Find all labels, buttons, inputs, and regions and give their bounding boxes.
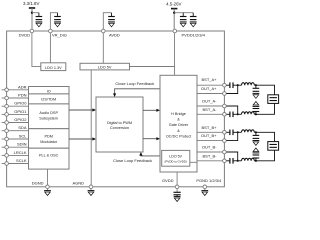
wire LDO 5V down to AGND (90, 70, 92, 185)
wire H-bridge to BST_A+ (197, 84, 224, 86)
wire stack bottom to DGND (47, 169, 49, 185)
block LDO 5V (80, 63, 130, 70)
pin SCLK (2, 163, 7, 165)
wire PVDD down to H-bridge (174, 33, 176, 75)
svg-text:I2S/TDM: I2S/TDM (41, 98, 56, 102)
svg-text:3.3/1.8V: 3.3/1.8V (23, 1, 39, 6)
svg-text:LDO 5V: LDO 5V (169, 155, 182, 159)
svg-text:BST_A+: BST_A+ (201, 77, 217, 82)
inductor B- (242, 158, 255, 161)
wire LDO 5V to PVDD rail (130, 66, 175, 68)
supply terminal 3.3/1.8V (29, 7, 35, 9)
pin SDIN (2, 146, 7, 148)
wire BST_A+ to bootstrap cap (227, 84, 230, 86)
wire VR_DIG into LDO 1.3V top (49, 33, 51, 63)
pin BST_A- (223, 113, 227, 117)
ground AGND (90, 189, 92, 191)
svg-text:DGND: DGND (32, 181, 44, 186)
svg-text:Digital to PWM: Digital to PWM (107, 121, 132, 125)
junction dot B- (255, 160, 257, 162)
wire H-bridge to OUT_B+ (197, 140, 224, 142)
pin GVDD (175, 185, 179, 189)
capacitor DVDD decoupling with ground (36, 13, 43, 27)
ground PGND (204, 189, 206, 191)
wire feedback top (115, 89, 160, 95)
svg-text:(PVDD to GVDD): (PVDD to GVDD) (165, 160, 187, 164)
block Digital to PWM Conversion (96, 97, 143, 152)
block LDO 5V (PVDD to GVDD) (162, 150, 190, 166)
wire H-bridge to BST_B- (197, 160, 224, 162)
block Audio DSP Subsystem (29, 104, 70, 129)
capacitor PVDD decoupling 2 with ground (190, 13, 197, 27)
svg-text:BST_B-: BST_B- (202, 153, 217, 158)
svg-text:Close Loop Feedback: Close Loop Feedback (113, 158, 152, 163)
junction dot (237, 131, 239, 133)
svg-text:SDA: SDA (18, 125, 27, 130)
svg-text:SDIN: SDIN (17, 142, 27, 147)
svg-text:LRCLK: LRCLK (14, 150, 27, 155)
pin SCL (2, 138, 7, 140)
pin BST_B- (223, 159, 227, 163)
wire H-bridge to OUT_B- (197, 151, 224, 153)
svg-text:PDM: PDM (44, 135, 52, 139)
junction dot (31, 12, 33, 14)
capacitor bootstrap A+ (230, 82, 233, 88)
junction dot (237, 84, 239, 86)
wire bootstrap B- to filter (233, 160, 242, 162)
wire BST_A- to bootstrap cap (227, 113, 230, 115)
capacitor bootstrap B+ (230, 130, 233, 136)
junction dot A- (255, 113, 257, 115)
pin GPIO1 (2, 113, 7, 115)
svg-text:PGND 1/2/3/4: PGND 1/2/3/4 (196, 178, 222, 183)
capacitor AVDD decoupling with ground (108, 13, 115, 27)
svg-text:GPIO2: GPIO2 (14, 117, 27, 122)
wire AVDD pin up (103, 13, 111, 31)
wire bootstrap A+ to filter (233, 84, 242, 86)
wire VR_DIG pin up (50, 13, 57, 31)
pin GPIO2 (2, 122, 7, 124)
wire branch to DVDD cap (32, 12, 39, 14)
pin DGND (46, 185, 50, 189)
speaker B (268, 142, 279, 151)
pin DVDD (30, 29, 34, 33)
pin PVDD1/2/3/4 (173, 29, 177, 33)
junction dot (237, 113, 239, 115)
svg-text:Gate Driver: Gate Driver (169, 123, 189, 127)
wire DVDD to LDO 1.3V (32, 33, 41, 67)
wire H-bridge to BST_B+ (197, 131, 224, 133)
wire OUT_A+ up to BST_A+ line (227, 85, 238, 93)
wire H-bridge to OUT_A+ (197, 93, 224, 95)
wire H-bridge to BST_A- (197, 113, 224, 115)
pin OUT_B+ (223, 139, 227, 143)
wire bootstrap A- to filter (233, 113, 242, 115)
capacitor filter A- to ground (up) (255, 112, 257, 115)
svg-text:PDN: PDN (18, 93, 27, 98)
svg-text:BST_A-: BST_A- (202, 107, 217, 112)
pin BST_A+ (223, 83, 227, 87)
pin ADR (2, 89, 7, 91)
junction dot (173, 12, 175, 14)
svg-text:OUT_B+: OUT_B+ (201, 133, 217, 138)
wire feedback bottom (141, 154, 160, 156)
capacitor filter A+ to ground (255, 85, 257, 88)
svg-text:LDO 1.3V: LDO 1.3V (45, 66, 62, 70)
wire AVDD into LDO 5V top (102, 33, 104, 63)
svg-text:PLL & OSC: PLL & OSC (39, 153, 59, 157)
wire branch to PVDD caps (174, 12, 193, 14)
block PDM Modulator (29, 129, 70, 149)
arrow DSP to PWM (69, 109, 94, 111)
svg-text:LDO 5V: LDO 5V (98, 65, 112, 69)
svg-text:SCL: SCL (19, 134, 28, 139)
wire H-bridge to GVDD (176, 172, 178, 185)
wire supply 4.5-26V down to PVDD (173, 9, 175, 31)
wire H-bridge to OUT_A- (197, 105, 224, 107)
wire BST_B+ to bootstrap cap (227, 131, 230, 133)
svg-text:OUT_A-: OUT_A- (202, 99, 217, 104)
inductor A- (242, 112, 255, 115)
svg-text:DVDD: DVDD (19, 33, 30, 38)
wire bootstrap B+ to filter (233, 131, 242, 133)
svg-text:OUT_B-: OUT_B- (202, 145, 217, 150)
svg-text:4.5-26V: 4.5-26V (166, 2, 181, 7)
pin OUT_B- (223, 150, 227, 154)
wire inductor B- to speaker (254, 150, 274, 161)
capacitor filter B+ to ground (255, 132, 257, 135)
junction dot (237, 160, 239, 162)
pin LRCLK (2, 154, 7, 156)
pin SDA (2, 130, 7, 132)
svg-text:Conversion: Conversion (110, 126, 129, 130)
capacitor GVDD with ground (176, 189, 178, 192)
svg-text:Modulator: Modulator (40, 140, 58, 144)
capacitor filter B- to ground (up) (255, 158, 257, 161)
svg-text:SCLK: SCLK (16, 158, 27, 163)
svg-text:VR_DIG: VR_DIG (52, 33, 67, 38)
block IO (29, 87, 70, 94)
block LDO 1.3V (41, 63, 66, 71)
svg-text:Subsystem: Subsystem (39, 117, 58, 121)
capacitor VR_DIG decoupling with ground (54, 13, 61, 27)
capacitor bootstrap A- (230, 112, 233, 118)
svg-text:GPIO0: GPIO0 (14, 101, 27, 106)
wire OUT_B+ up to BST_B+ line (227, 132, 238, 140)
capacitor bootstrap B- (230, 158, 233, 164)
svg-text:BST_B+: BST_B+ (201, 125, 217, 130)
svg-text:OC/DC Protect: OC/DC Protect (166, 134, 192, 138)
junction dot A+ (255, 84, 257, 86)
pin AVDD (102, 29, 106, 33)
block H Bridge & Gate Driver & OC/DC Protect (160, 75, 197, 172)
wire OUT_A- down to BST_A- line (227, 106, 238, 114)
wire inductor A- to speaker (254, 103, 274, 114)
pin GPIO0 (2, 105, 7, 107)
svg-text:Close Loop Feedback: Close Loop Feedback (115, 81, 154, 86)
wire inductor B+ to speaker (254, 132, 274, 141)
block I2S/TDM (29, 94, 70, 104)
svg-text:ADR: ADR (18, 84, 27, 89)
block PLL & OSC (29, 148, 70, 169)
pin PDN (2, 97, 7, 99)
ground DGND (47, 189, 49, 191)
svg-text:AVDD: AVDD (109, 33, 120, 38)
junction dot B+ (255, 131, 257, 133)
svg-text:OUT_A+: OUT_A+ (201, 86, 217, 91)
svg-text:&: & (177, 118, 180, 122)
arrow PDM to PWM (69, 138, 94, 140)
inductor A+ (242, 83, 255, 86)
chip boundary (7, 31, 225, 187)
pin BST_B+ (223, 131, 227, 135)
pin VR_DIG (49, 29, 53, 33)
arrow PWM to H-bridge 2 (143, 138, 158, 140)
capacitor PVDD decoupling 1 with ground (180, 13, 187, 27)
pin PGND 1/2/3/4 (203, 185, 207, 189)
wire supply 3.3/1.8V down to DVDD (31, 8, 33, 31)
svg-text:PVDD1/2/3/4: PVDD1/2/3/4 (182, 33, 206, 38)
svg-text:GPIO1: GPIO1 (14, 109, 27, 114)
supply terminal 4.5-26V (171, 8, 177, 10)
pin AGND (89, 185, 93, 189)
arrow PWM to H-bridge 1 (143, 109, 158, 111)
svg-text:H Bridge: H Bridge (171, 112, 186, 116)
svg-text:IO: IO (47, 89, 51, 93)
wire inductor A+ to speaker (254, 85, 274, 95)
svg-text:GVDD: GVDD (162, 178, 174, 183)
inductor B+ (242, 130, 255, 133)
pin OUT_A- (223, 104, 227, 108)
wire OUT_B- down to BST_B- line (227, 152, 238, 161)
svg-text:Audio DSP: Audio DSP (39, 111, 58, 115)
svg-text:AGND: AGND (72, 181, 84, 186)
svg-text:&: & (177, 129, 180, 133)
wire BST_B- to bootstrap cap (227, 160, 230, 162)
speaker A (268, 95, 279, 104)
wire LDO5V sub-block to right edge (190, 161, 197, 163)
pin OUT_A+ (223, 92, 227, 96)
